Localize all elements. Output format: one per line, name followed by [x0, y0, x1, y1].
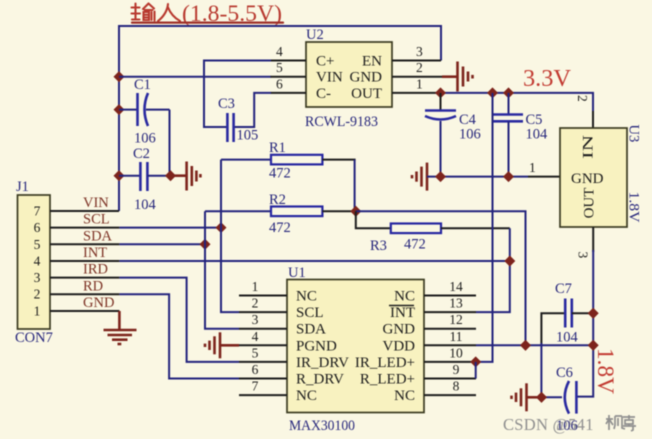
svg-text:C2: C2: [133, 146, 150, 162]
svg-text:1: 1: [529, 160, 536, 175]
wire SDA vertical: [205, 211, 239, 328]
capacitor C6: [541, 365, 577, 434]
svg-text:105: 105: [237, 128, 259, 144]
svg-text:NC: NC: [296, 388, 317, 404]
node VIN junction on input rail: [113, 71, 124, 82]
svg-text:2: 2: [575, 95, 590, 102]
pin 2 of U1: [239, 311, 287, 313]
pin 13 of U1: [424, 311, 476, 313]
node C1 junction: [113, 104, 124, 115]
pin 4 of U1: [239, 344, 287, 346]
node pull-up/VDD junction: [520, 340, 531, 351]
node SCL junction: [215, 222, 226, 233]
svg-text:14: 14: [449, 279, 463, 294]
svg-text:GND: GND: [83, 295, 114, 311]
node C5 ground junction: [503, 171, 514, 182]
svg-text:INT: INT: [390, 305, 415, 321]
svg-text:NC: NC: [296, 289, 317, 305]
IC U1 MAX30100: [287, 265, 424, 434]
svg-text:VIN: VIN: [316, 70, 343, 86]
svg-text:3: 3: [252, 312, 259, 327]
pin 1 of U2 (OUT): [392, 92, 441, 94]
svg-text:CSDN @541: CSDN @541: [503, 415, 594, 434]
svg-text:RCWL-9183: RCWL-9183: [305, 114, 378, 130]
node INT junction: [504, 255, 515, 266]
svg-text:EN: EN: [362, 54, 382, 70]
wire U2 C- to C3: [234, 93, 272, 127]
svg-text:INT: INT: [83, 245, 107, 261]
svg-text:VIN: VIN: [83, 195, 109, 211]
pin 3 of U3: [592, 227, 594, 252]
svg-text:GND: GND: [383, 322, 416, 338]
svg-text:GND: GND: [571, 171, 604, 187]
node VDD/U3-OUT junction: [588, 340, 599, 351]
node pin10 junction: [470, 356, 481, 367]
pin 5 of U1: [239, 361, 287, 363]
svg-text:OUT: OUT: [581, 188, 597, 219]
capacitor C2: [119, 146, 171, 213]
svg-text:4: 4: [252, 329, 259, 344]
node C1/C2 ground junction: [165, 170, 176, 181]
wire pin9 to pin10 jumper: [475, 362, 477, 379]
svg-text:104: 104: [526, 127, 549, 143]
svg-text:2: 2: [34, 287, 41, 302]
svg-text:IRD: IRD: [83, 262, 108, 278]
svg-text:C3: C3: [218, 96, 235, 112]
pin 6 of U2: [271, 92, 307, 94]
node R1/R2 junction: [350, 206, 361, 217]
svg-text:C-: C-: [316, 86, 331, 102]
svg-text:R1: R1: [269, 140, 286, 156]
wire 3.3V rail: [441, 93, 594, 113]
svg-text:IR_LED+: IR_LED+: [355, 355, 415, 371]
wire SCL vertical: [221, 160, 239, 313]
wire R1 right vertical: [354, 160, 356, 212]
svg-text:C7: C7: [555, 281, 572, 297]
svg-text:10: 10: [449, 345, 463, 360]
wire U3 OUT down to C6: [577, 250, 594, 397]
wire C7 to ground junction: [540, 343, 542, 397]
pin 12 of U1: [424, 328, 476, 330]
pin 7 of U1: [239, 394, 287, 396]
svg-text:SDA: SDA: [83, 228, 113, 244]
svg-text:NC: NC: [394, 289, 415, 305]
pin 10 of U1: [424, 361, 476, 363]
pin 6 of J1 + wire SCL: [50, 227, 119, 229]
svg-text:6: 6: [252, 362, 259, 377]
svg-text:3.3V: 3.3V: [523, 66, 572, 92]
IC U2 RCWL-9183: [305, 27, 392, 130]
svg-text:104: 104: [556, 330, 579, 346]
svg-text:SCL: SCL: [296, 305, 324, 321]
wire VDD rail: [476, 344, 593, 346]
svg-text:8: 8: [453, 379, 460, 394]
connector J1 CON7: [15, 179, 53, 346]
node SDA junction: [199, 239, 210, 250]
resistor R2: [205, 192, 356, 236]
pin 4 of U2: [271, 60, 307, 62]
wire U2 C+ to C3: [204, 61, 271, 128]
pin 3 of U2 (EN): [392, 60, 441, 62]
svg-text:472: 472: [269, 220, 291, 236]
pin 8 of U1: [424, 394, 476, 396]
svg-text:4: 4: [276, 44, 283, 59]
svg-text:1: 1: [416, 77, 423, 92]
wire ground rail to U3 pin1: [427, 176, 528, 178]
svg-text:106: 106: [134, 131, 156, 147]
svg-text:GND: GND: [350, 70, 383, 86]
svg-text:3: 3: [416, 44, 423, 59]
svg-text:1.8V: 1.8V: [626, 192, 642, 224]
svg-text:2: 2: [416, 60, 423, 75]
pin 5 of J1 + wire SDA: [50, 243, 119, 245]
svg-text:VDD: VDD: [383, 338, 416, 354]
svg-text:1: 1: [252, 279, 259, 294]
svg-text:5: 5: [276, 60, 283, 75]
svg-text:U2: U2: [306, 27, 324, 43]
svg-text:R3: R3: [370, 238, 387, 254]
resistor R1: [221, 140, 356, 182]
ground at U2 pin 2: [442, 62, 473, 92]
node C4 ground junction: [435, 171, 446, 182]
svg-text:6: 6: [276, 77, 283, 92]
svg-text:CON7: CON7: [15, 330, 53, 346]
node C5 junction: [503, 87, 514, 98]
svg-text:7: 7: [252, 379, 259, 394]
svg-text:IR_DRV: IR_DRV: [296, 355, 349, 371]
svg-text:NC: NC: [394, 388, 415, 404]
pin 11 of U1: [424, 344, 476, 346]
wire INT vertical to U1 pin13: [476, 228, 510, 312]
wire pull-up net to VDD: [356, 211, 526, 345]
svg-text:4: 4: [34, 253, 41, 268]
pin 14 of U1: [424, 295, 476, 297]
resistor R3: [356, 211, 510, 254]
svg-text:C+: C+: [316, 54, 334, 70]
svg-text:IN: IN: [580, 135, 596, 159]
svg-text:RD: RD: [83, 278, 103, 294]
pin 3 of U1: [239, 328, 287, 330]
svg-text:13: 13: [449, 296, 463, 311]
svg-text:3: 3: [576, 252, 591, 259]
ground below J1: [104, 311, 137, 344]
svg-text:SCL: SCL: [83, 212, 110, 228]
pin 2 of U2 (GND): [392, 76, 443, 78]
pin 2 of U3: [592, 111, 594, 128]
pin 6 of U1: [239, 378, 287, 380]
ground on 3.3V decoupling rail: [412, 163, 427, 191]
svg-text:9: 9: [453, 362, 460, 377]
wire VIN to U2 pin5: [119, 76, 271, 78]
svg-text:R_DRV: R_DRV: [296, 372, 344, 388]
svg-text:3: 3: [34, 270, 41, 285]
ground right of C2: [171, 162, 201, 191]
svg-text:472: 472: [269, 166, 291, 182]
svg-text:11: 11: [450, 329, 463, 344]
pin 5 of U2: [271, 76, 307, 78]
pin 1 of J1 GND: [50, 310, 119, 312]
svg-text:106: 106: [459, 127, 481, 143]
pin 3 of J1 + wire IRD: [50, 277, 119, 279]
pin 1 of U3: [528, 176, 560, 178]
svg-text:1: 1: [34, 303, 41, 318]
capacitor C3: [218, 96, 258, 144]
svg-text:5: 5: [34, 237, 41, 252]
capacitor C1: [119, 77, 170, 147]
svg-text:C1: C1: [134, 77, 151, 93]
svg-text:OUT: OUT: [351, 86, 382, 102]
svg-text:C6: C6: [556, 365, 573, 381]
svg-text:2: 2: [252, 296, 259, 311]
ground at U1 PGND pin 4: [205, 332, 239, 358]
svg-text:104: 104: [134, 197, 157, 213]
svg-text:7: 7: [34, 204, 41, 219]
node C2 junction on rail: [113, 170, 124, 181]
svg-text:6: 6: [34, 220, 41, 235]
power label 输入(1.8-5.5V): [132, 1, 284, 26]
watermark CSDN: [503, 415, 636, 434]
node 3.3V/LED junction: [487, 87, 498, 98]
node C6 ground junction: [536, 392, 547, 403]
wire 3.3V down to LED+ pins: [476, 93, 493, 362]
pin 2 of J1 + wire RD: [50, 293, 119, 295]
ground at C6: [512, 383, 542, 411]
capacitor C5: [494, 93, 549, 177]
wire C1 right to C2 right: [169, 110, 171, 176]
IC U3 1.8V regulator: [560, 125, 642, 228]
pin 1 of U1: [239, 295, 287, 297]
pin 9 of U1: [424, 378, 476, 380]
svg-text:J1: J1: [16, 179, 29, 195]
svg-text:U3: U3: [626, 125, 642, 143]
svg-text:1.8V: 1.8V: [593, 348, 618, 394]
svg-text:U1: U1: [288, 265, 306, 281]
node OUT/C4 junction: [435, 87, 446, 98]
svg-text:472: 472: [404, 237, 426, 253]
capacitor C7: [541, 281, 593, 346]
svg-text:MAX30100: MAX30100: [289, 418, 355, 434]
wire input top rail: [119, 26, 441, 211]
svg-text:R_LED+: R_LED+: [360, 372, 415, 388]
pin 7 of J1 + wire to input rail: [50, 210, 119, 212]
svg-text:5: 5: [252, 345, 259, 360]
svg-text:12: 12: [449, 312, 463, 327]
node C7/U3-OUT junction: [588, 308, 599, 319]
svg-text:SDA: SDA: [296, 322, 326, 338]
svg-text:PGND: PGND: [296, 338, 337, 354]
pin 4 of J1 + wire INT: [50, 260, 119, 262]
capacitor C4: [425, 93, 481, 177]
